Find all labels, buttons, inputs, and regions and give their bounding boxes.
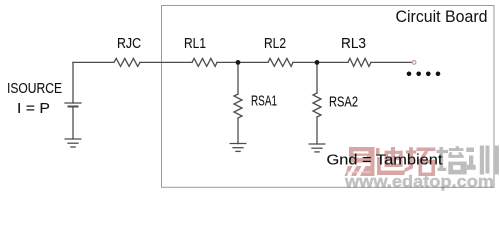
resistor RL1 — [192, 58, 217, 66]
wire main horizontal left segment — [73, 61, 114, 63]
svg-text:RSA1: RSA1 — [251, 93, 277, 110]
svg-text:RL3: RL3 — [341, 35, 366, 52]
ground under RSA2 — [309, 144, 325, 152]
svg-text:RSA2: RSA2 — [329, 94, 358, 111]
ground under RSA1 — [230, 144, 246, 152]
ellipsis continuation dots — [407, 72, 441, 77]
resistor RSA1 — [234, 94, 242, 118]
wire RSA2 to ground — [316, 117, 318, 144]
resistor RJC — [114, 58, 140, 66]
wire RL1 to RL2 — [217, 61, 268, 63]
watermark layer — [344, 146, 499, 191]
svg-text:RL2: RL2 — [264, 35, 286, 52]
wire RL2 to RL3 — [293, 61, 348, 63]
wire RSA1 to ground — [237, 118, 239, 144]
svg-text:RL1: RL1 — [184, 35, 206, 52]
wire ISOURCE vertical bottom — [72, 107, 74, 140]
resistor RL3 — [348, 58, 371, 66]
resistor RSA2 — [313, 93, 321, 117]
watermark char di — [376, 147, 405, 175]
current source ISOURCE long plate — [65, 102, 81, 104]
circuit board outline box — [162, 6, 495, 188]
svg-text:I = P: I = P — [17, 100, 50, 117]
node B junction dot — [315, 60, 320, 65]
svg-text:RJC: RJC — [117, 35, 141, 52]
current source ISOURCE short plate — [69, 106, 78, 108]
watermark char yi (easy) — [345, 147, 375, 176]
open terminal pin — [412, 60, 416, 64]
wire node B vertical — [316, 62, 318, 93]
wire RL3 to open terminal — [371, 61, 412, 63]
svg-text:www.edatop.com: www.edatop.com — [344, 173, 494, 191]
resistor RL2 — [268, 58, 293, 66]
watermark char pei — [436, 146, 466, 174]
wire RJC to RL1 — [140, 61, 192, 63]
watermark char tuo — [405, 147, 436, 176]
ground under ISOURCE — [65, 139, 81, 147]
watermark char xun — [466, 146, 499, 175]
wire ISOURCE vertical top — [72, 62, 74, 103]
svg-text:ISOURCE: ISOURCE — [7, 80, 62, 97]
svg-text:Circuit Board: Circuit Board — [396, 8, 488, 26]
wire node A vertical — [237, 62, 239, 94]
node A junction dot — [236, 60, 241, 65]
